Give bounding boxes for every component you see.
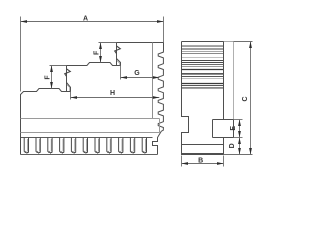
dimension F upper line <box>100 43 102 63</box>
dimension G extension <box>120 66 122 80</box>
dimension F lower extension <box>50 65 67 67</box>
dimension F upper extension <box>99 42 117 44</box>
F lower arrows <box>50 66 53 73</box>
svg-text:F: F <box>45 75 52 80</box>
side view: riser 2 serration zigzag <box>115 46 121 54</box>
dimension G line <box>121 77 160 79</box>
dimension H extension <box>70 92 72 100</box>
H arrows <box>71 96 78 99</box>
arrowheads <box>21 20 252 165</box>
side view: guide groove upper line <box>21 118 160 120</box>
front view: serration stripes <box>182 46 223 89</box>
front view: tongue bottom thick line <box>182 153 224 155</box>
dimension E extensions <box>234 119 243 121</box>
dimension B extensions <box>181 156 183 167</box>
side view: guide groove lower line <box>21 132 160 134</box>
F upper arrows <box>99 43 102 50</box>
side view: body bottom edge <box>21 137 153 139</box>
svg-text:A: A <box>83 15 88 22</box>
svg-text:B: B <box>198 158 203 165</box>
dimension A line <box>21 21 164 23</box>
side view: jaw stepped profile outline <box>21 43 164 138</box>
dimension F lower line <box>51 66 53 89</box>
svg-text:F: F <box>93 50 100 55</box>
svg-text:C: C <box>242 96 249 101</box>
E arrows <box>238 120 241 127</box>
svg-text:H: H <box>110 90 115 97</box>
A right arrow <box>157 20 164 23</box>
front view: serrated zone boundary <box>223 42 225 120</box>
G arrows <box>121 76 128 79</box>
side view: serrated clamping face wavy edge with bottom staircase <box>153 43 164 155</box>
dimension B line <box>182 163 224 165</box>
dimension C extensions <box>234 41 253 43</box>
dimension A extension lines <box>20 17 22 92</box>
dimension H line <box>71 97 160 99</box>
side view: riser 2 base lip <box>117 59 121 66</box>
side view: tongue serration wells <box>21 138 147 155</box>
front view: tongue inner line <box>182 144 224 146</box>
side view: riser 1 base lip <box>67 83 71 92</box>
A left arrow <box>21 20 28 23</box>
side view: serrated face inner boundary line <box>152 43 154 119</box>
B arrows <box>182 162 189 165</box>
svg-text:G: G <box>134 70 140 77</box>
side view: groove right end <box>159 119 161 133</box>
C arrows <box>249 42 252 49</box>
side view: tongue teeth bottom edge <box>21 154 158 156</box>
dimension C line <box>250 42 252 155</box>
front view: jaw body outline <box>182 42 234 155</box>
D arrows <box>238 138 241 145</box>
front view: key recess box <box>212 120 214 138</box>
svg-text:E: E <box>230 126 237 131</box>
svg-text:D: D <box>229 143 236 148</box>
dimension extension and dimension lines <box>21 17 253 167</box>
side view: riser 1 serration zigzag <box>65 69 71 77</box>
dimension E and D shared line <box>239 120 241 155</box>
